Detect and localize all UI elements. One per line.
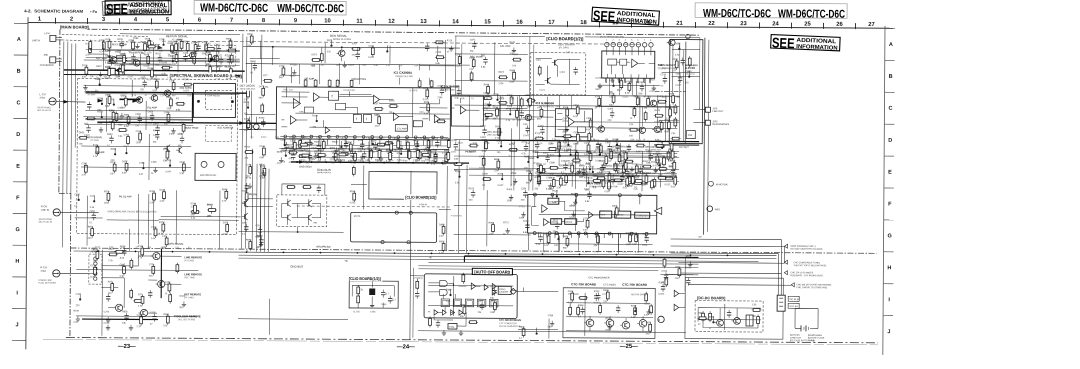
svg-text:R855: R855 [494, 159, 500, 161]
svg-text:C83: C83 [495, 126, 500, 128]
capacitor [600, 165, 604, 173]
capacitor [244, 224, 248, 232]
capacitor [131, 54, 135, 62]
IC5 bottom edge pads [533, 232, 536, 235]
resistor [633, 181, 643, 184]
svg-text:C17: C17 [602, 154, 607, 156]
capacitor [545, 154, 549, 162]
resistor [180, 39, 183, 50]
svg-text:R88: R88 [118, 125, 123, 127]
resistor [674, 175, 677, 186]
resistor [186, 41, 189, 52]
resistor [675, 59, 678, 70]
vertical wire bundle x258-272 mid [255, 164, 258, 252]
resistor [86, 117, 96, 120]
resistor [311, 59, 321, 62]
svg-text:* (R51)-(R54) ARE 1% (A), (B57: * (R51)-(R54) ARE 1% (A), (B57) IS (C) (… [107, 210, 158, 213]
transistor Q1 [109, 57, 117, 63]
svg-text:C45: C45 [76, 294, 81, 296]
junction node [99, 83, 101, 85]
resistor [510, 95, 513, 106]
svg-text:0.047: 0.047 [169, 134, 175, 136]
resistor [576, 132, 579, 143]
dc-dc transistor Q61 [715, 319, 724, 326]
resistor [166, 314, 169, 325]
wire [635, 81, 637, 95]
capacitor [425, 43, 429, 51]
capacitor [639, 166, 643, 174]
wire [177, 42, 179, 75]
resistor [655, 145, 665, 148]
svg-text:R281: R281 [242, 191, 248, 193]
ctc bottom long wire [418, 331, 686, 333]
svg-text:0.047: 0.047 [618, 184, 624, 186]
svg-text:R816: R816 [519, 327, 525, 329]
svg-text:R195: R195 [183, 79, 189, 81]
resistor [245, 191, 248, 202]
resistor [427, 139, 430, 150]
svg-text:R949: R949 [609, 175, 615, 177]
ampl reg box [551, 219, 562, 225]
L-CH mic jack J1 [49, 98, 56, 105]
svg-text:120k: 120k [507, 200, 513, 202]
capacitor [661, 284, 665, 292]
svg-text:R874: R874 [498, 72, 504, 74]
svg-text:R772: R772 [503, 222, 509, 224]
capacitor [180, 135, 184, 143]
svg-text:C318: C318 [660, 74, 666, 76]
svg-text:R645: R645 [338, 149, 344, 151]
wire [537, 174, 677, 177]
battery connector label 3 [784, 271, 787, 275]
wire [250, 58, 280, 60]
svg-text:MIC PLUG IN: MIC PLUG IN [39, 222, 53, 224]
svg-text:7: 7 [230, 18, 233, 24]
svg-text:—23—: —23— [118, 344, 136, 350]
svg-text:C725: C725 [152, 79, 158, 81]
vertical wire bundle left x64-76 [63, 41, 64, 247]
svg-text:R131: R131 [93, 145, 99, 147]
svg-text:R457: R457 [289, 151, 295, 153]
svg-text:R601: R601 [709, 317, 715, 319]
svg-text:—24—: —24— [397, 344, 415, 350]
wire [558, 236, 560, 251]
svg-text:C186: C186 [436, 52, 442, 54]
wire [575, 193, 577, 231]
capacitor [183, 54, 187, 62]
resistor [112, 110, 115, 121]
wire [539, 173, 605, 175]
ctc-7sk board outline [563, 288, 655, 339]
IC1 internal wires [281, 87, 450, 121]
IC1 label overlay [392, 70, 432, 78]
junction node [449, 294, 451, 296]
svg-text:R59: R59 [124, 115, 129, 117]
svg-text:G: G [15, 227, 19, 233]
svg-text:[AUTO OFF BOARD: [AUTO OFF BOARD [474, 269, 510, 274]
resistor [107, 191, 110, 202]
capacitor [435, 140, 439, 148]
resistor [141, 294, 144, 305]
svg-text:C461: C461 [280, 140, 286, 142]
resistor [605, 154, 608, 165]
svg-text:0.047: 0.047 [676, 85, 682, 87]
svg-text:R489: R489 [314, 142, 320, 144]
resistor [649, 322, 652, 333]
svg-text:4.7: 4.7 [385, 292, 389, 296]
junction node [567, 144, 569, 146]
svg-text:C965: C965 [135, 114, 141, 116]
svg-text:GEN SIGNAL: GEN SIGNAL [169, 243, 185, 246]
wire [595, 127, 677, 130]
svg-text:C29: C29 [255, 225, 260, 227]
svg-text:R288: R288 [358, 140, 364, 142]
ground [671, 161, 675, 166]
svg-text:0.022: 0.022 [350, 202, 356, 204]
resistor [172, 80, 175, 91]
R-CH mic jack J3 [53, 270, 60, 277]
svg-text:R114: R114 [651, 162, 657, 164]
resistor [171, 43, 174, 54]
resistor [458, 54, 461, 65]
svg-text:[MAIN BOARD]: [MAIN BOARD] [60, 24, 89, 29]
wire [261, 35, 263, 85]
signal flow dashed arrow upper left [62, 34, 160, 48]
capacitor [109, 135, 113, 143]
resistor [303, 142, 313, 145]
svg-text:PLUG IN POWER: PLUG IN POWER [38, 283, 56, 285]
svg-text:D826: D826 [646, 322, 652, 324]
resistor [132, 40, 135, 51]
wire [238, 318, 348, 321]
resistor [536, 168, 546, 171]
wire [84, 60, 240, 61]
svg-text:PB: PB [314, 222, 318, 225]
resistor [190, 210, 200, 213]
junction node [678, 48, 680, 50]
resistor [599, 144, 602, 155]
capacitor [596, 293, 600, 301]
capacitor [678, 75, 682, 83]
resistor [247, 119, 250, 130]
svg-text:R691: R691 [643, 161, 649, 163]
svg-text:Q301: Q301 [536, 60, 542, 62]
resistor [575, 150, 578, 161]
resistor [667, 120, 670, 131]
block box2 in IC1 [413, 121, 422, 127]
junction node [599, 154, 601, 156]
tri at IC5 right edge [654, 207, 662, 214]
svg-text:R826: R826 [698, 313, 704, 315]
ruler scale 1-27 [28, 23, 893, 29]
ground [565, 126, 569, 131]
capacitor [563, 162, 567, 170]
resistor [645, 174, 648, 185]
wire [290, 67, 292, 83]
capacitor [209, 206, 213, 214]
svg-text:R400: R400 [507, 189, 513, 191]
wire [85, 109, 191, 112]
resistor [227, 49, 237, 52]
MIC in connector [50, 57, 56, 63]
svg-text:0.022: 0.022 [485, 107, 491, 109]
resistor [552, 178, 555, 189]
capacitor [671, 168, 675, 176]
resistor [334, 151, 337, 162]
svg-text:R684: R684 [107, 134, 113, 136]
resistor [102, 40, 105, 51]
svg-text:R373: R373 [166, 160, 172, 162]
resistor [263, 166, 266, 177]
resistor [492, 223, 495, 234]
svg-text:M: M [658, 318, 660, 322]
wire [216, 44, 218, 72]
svg-text:C473: C473 [479, 156, 485, 158]
svg-text:0.01: 0.01 [623, 187, 628, 189]
junction node [527, 161, 529, 163]
svg-text:H: H [15, 259, 19, 265]
resistor [445, 153, 448, 164]
svg-text:C318: C318 [605, 180, 611, 182]
svg-text:C63: C63 [206, 43, 211, 45]
svg-text:C570: C570 [671, 175, 677, 177]
junction node [125, 152, 127, 154]
wire [101, 250, 104, 336]
wire [537, 154, 677, 157]
svg-text:(REMOVABLE: (REMOVABLE [808, 334, 823, 337]
svg-text:R762: R762 [623, 176, 629, 178]
svg-text:D371: D371 [223, 222, 229, 224]
resistor [175, 102, 185, 105]
resistor [635, 233, 638, 244]
auto off wires [428, 283, 517, 327]
resistor [288, 151, 298, 154]
resistor [118, 129, 128, 132]
svg-text:R908: R908 [489, 223, 495, 225]
svg-text:R500: R500 [332, 142, 338, 144]
clio board dashed box (top) [531, 53, 586, 95]
heavy rail under IC5 parts [464, 256, 698, 264]
resistor [299, 138, 302, 149]
svg-text:C539: C539 [99, 40, 105, 42]
stamp SEE ADDITIONAL INFORMATION (top middle) [592, 7, 660, 28]
svg-text:R382: R382 [163, 314, 169, 316]
resistor [566, 107, 569, 118]
ground [487, 101, 491, 106]
capacitor [360, 141, 364, 149]
svg-text:R992: R992 [346, 142, 352, 144]
svg-text:120k: 120k [657, 132, 663, 134]
wire [268, 299, 270, 335]
svg-text:R109: R109 [281, 150, 287, 152]
resistor [152, 264, 155, 275]
IC1 inner small box B [335, 103, 345, 110]
svg-text:R519: R519 [556, 176, 562, 178]
resistor [592, 179, 602, 182]
wire [486, 190, 488, 246]
svg-text:R250: R250 [259, 118, 265, 120]
svg-text:R85: R85 [166, 97, 171, 99]
ground [608, 324, 612, 329]
svg-text:R226: R226 [117, 39, 123, 41]
svg-text:26: 26 [836, 22, 843, 28]
clio board lower label overlay [347, 275, 382, 281]
resistor [249, 165, 252, 176]
junction node [108, 55, 110, 57]
svg-text:C105: C105 [150, 312, 156, 314]
capacitor [440, 87, 444, 95]
bottom board edge line (dash-dot) [66, 337, 878, 342]
svg-text:C758: C758 [149, 264, 155, 266]
svg-text:E: E [888, 170, 892, 176]
logic gate G1 (AND) [440, 280, 448, 286]
resistor [353, 191, 356, 202]
svg-text:47kΩ: 47kΩ [40, 270, 46, 273]
svg-text:CHG 1 MOVE TO STORE AVE): CHG 1 MOVE TO STORE AVE) [796, 286, 827, 289]
svg-text:CHG (W) (A PLEASE ASK MORSEL: CHG (W) (A PLEASE ASK MORSEL [796, 283, 832, 286]
wire [659, 163, 661, 187]
svg-text:R375: R375 [105, 51, 111, 53]
svg-text:C392: C392 [81, 163, 87, 165]
IC4 pin stubs [605, 78, 607, 82]
svg-text:R478: R478 [654, 110, 660, 112]
resistor [558, 140, 561, 151]
svg-text:DIVIDER: DIVIDER [499, 292, 508, 294]
junction node [612, 85, 614, 87]
IC4 inner pin hatches [606, 51, 608, 55]
wire [684, 257, 686, 292]
resistor [407, 149, 410, 160]
svg-text:17: 17 [548, 20, 554, 26]
left border scale A-J [26, 17, 28, 349]
clio board 1/2 label (middle right) [404, 194, 438, 200]
junction node [559, 155, 561, 157]
resistor [209, 65, 212, 76]
resistor [127, 135, 130, 146]
resistor [522, 327, 525, 338]
svg-text:C607: C607 [348, 149, 354, 151]
resistor [608, 180, 611, 191]
svg-text:D774: D774 [634, 176, 640, 178]
svg-text:• Fo: • Fo [90, 10, 98, 14]
bus lines across middle [239, 129, 276, 131]
svg-text:R702: R702 [431, 150, 437, 152]
svg-text:REC/LIN AMP: REC/LIN AMP [112, 43, 128, 46]
gnd bus under dolby IC [291, 162, 469, 163]
resistor [249, 240, 252, 251]
resistor [153, 191, 156, 202]
resistor [113, 162, 116, 173]
svg-text:C44: C44 [90, 196, 95, 198]
svg-text:C749: C749 [658, 142, 664, 144]
svg-text:C471: C471 [537, 107, 543, 109]
svg-text:J: J [887, 329, 890, 335]
svg-text:WM-D6C/TC-D6C: WM-D6C/TC-D6C [778, 8, 845, 20]
svg-text:R761: R761 [597, 173, 603, 175]
svg-text:C395: C395 [151, 162, 157, 164]
transistor Q13 [648, 100, 656, 106]
wire [175, 190, 177, 244]
svg-text:CTC COMPUTER: CTC COMPUTER [499, 323, 517, 325]
clio lower cap2 [388, 296, 396, 304]
op-amp U5a [542, 205, 548, 213]
clio board 1/2 black label (top) [545, 35, 585, 41]
junction node [78, 199, 80, 201]
resistor [108, 67, 111, 78]
svg-text:120k: 120k [612, 217, 618, 219]
svg-text:B: B [17, 69, 21, 75]
resistor [512, 58, 522, 61]
svg-text:C720: C720 [279, 66, 285, 68]
capacitor [245, 183, 249, 191]
junction node [592, 171, 594, 173]
svg-text:R118: R118 [208, 204, 214, 206]
svg-text:ERP HEAD: ERP HEAD [208, 94, 220, 97]
wire [251, 149, 254, 249]
wire [659, 120, 679, 122]
header box 1 WM-D6C/TC-D6C [194, 1, 346, 16]
svg-text:C967: C967 [299, 139, 305, 141]
svg-text:D774: D774 [493, 94, 499, 96]
svg-text:R25: R25 [108, 282, 113, 284]
svg-text:18: 18 [580, 20, 587, 26]
svg-text:C307: C307 [117, 108, 123, 110]
op-amp U1a2 (input stage) [293, 99, 300, 109]
resistor [229, 39, 232, 50]
svg-text:R894: R894 [544, 234, 550, 236]
svg-text:C413: C413 [613, 141, 619, 143]
top right connector circle [686, 34, 690, 38]
resistor [493, 301, 496, 312]
svg-text:C189: C189 [148, 68, 154, 70]
svg-text:A: A [889, 42, 893, 48]
resistor [596, 177, 606, 180]
svg-text:C689: C689 [549, 162, 555, 164]
wire [108, 50, 240, 53]
resistor [529, 96, 532, 107]
svg-text:CTC PWM DRIVER: CTC PWM DRIVER [588, 276, 609, 279]
wire [363, 165, 365, 209]
svg-text:C125: C125 [74, 194, 80, 196]
resistor [434, 152, 437, 163]
svg-text:C39: C39 [752, 304, 757, 306]
capacitor [317, 152, 321, 160]
junction node [570, 154, 572, 156]
junction node [386, 50, 388, 52]
resistor [571, 159, 581, 162]
capacitor [155, 132, 159, 140]
svg-text:C499: C499 [228, 45, 234, 47]
resistor [169, 97, 172, 108]
svg-text:0.01: 0.01 [535, 144, 540, 146]
svg-text:CTC-7SK BOARD: CTC-7SK BOARD [571, 282, 597, 286]
resistor [155, 79, 158, 90]
svg-text:R166: R166 [609, 93, 615, 95]
junction node [285, 155, 287, 157]
junction node [556, 195, 558, 197]
IC5 pin stubs [538, 233, 540, 238]
ctc transistor Q53 [620, 321, 630, 329]
resistor [671, 149, 674, 160]
resistor [520, 97, 523, 108]
resistor [534, 137, 544, 140]
wire [483, 107, 527, 109]
svg-text:R370: R370 [535, 177, 541, 179]
resistor [657, 100, 667, 103]
svg-text:R330: R330 [638, 82, 644, 84]
ground [509, 195, 513, 200]
bus heavy line upper-left pair [64, 70, 245, 71]
